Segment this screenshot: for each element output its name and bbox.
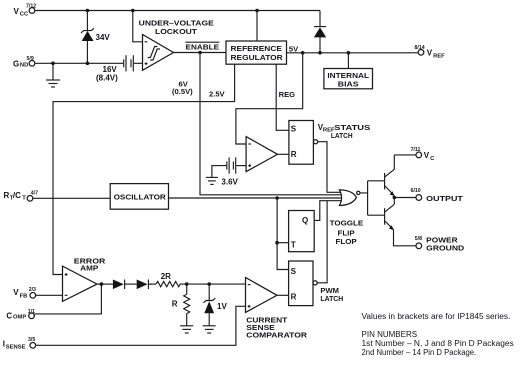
latch PWM LATCH <box>289 261 344 306</box>
svg-text:GROUND: GROUND <box>426 243 465 252</box>
svg-text:V: V <box>13 288 19 297</box>
wire to T input <box>277 242 289 244</box>
svg-text:3/5: 3/5 <box>28 337 35 343</box>
wire error amp output node <box>97 283 113 285</box>
svg-text:ND: ND <box>20 62 28 68</box>
wire 5V to comparator input <box>236 53 303 144</box>
block OSCILLATOR <box>110 184 168 210</box>
pin POWER GROUND 5/8 <box>415 236 465 253</box>
svg-text:7/12: 7/12 <box>26 3 36 9</box>
svg-text:FLOP: FLOP <box>336 237 357 246</box>
svg-text:ENABLE: ENABLE <box>186 42 220 51</box>
svg-text:(0.5V): (0.5V) <box>172 87 193 96</box>
svg-text:REG: REG <box>279 90 296 99</box>
wire comparator output to R <box>278 153 289 155</box>
svg-text:8/14: 8/14 <box>415 45 425 51</box>
junction clock-T <box>275 241 279 245</box>
svg-text:REGULATOR: REGULATOR <box>231 53 284 62</box>
net 5V rail <box>287 52 418 54</box>
junction 5V-branch <box>301 51 305 55</box>
diode VREF-to-VCC <box>314 11 326 53</box>
svg-text:I: I <box>3 339 5 348</box>
wire UVLO output / net ENABLE <box>174 52 227 54</box>
svg-text:PIN NUMBERS: PIN NUMBERS <box>362 330 418 339</box>
svg-text:R: R <box>4 191 10 200</box>
pin VFB 2/3 <box>13 287 36 299</box>
junction node R <box>185 282 189 286</box>
svg-text:LATCH: LATCH <box>320 294 343 303</box>
svg-text:LOCKOUT: LOCKOUT <box>155 27 197 36</box>
diode D2 <box>137 280 152 290</box>
svg-text:/C: /C <box>13 191 21 200</box>
wire clock to T and S <box>277 198 289 270</box>
wire comparator output to R of PWM latch <box>277 294 289 296</box>
junction VCC-UVLO <box>131 9 135 13</box>
svg-text:OMP: OMP <box>13 315 26 321</box>
pin VCC 7/12 <box>14 3 37 17</box>
svg-text:6/10: 6/10 <box>411 188 421 194</box>
svg-text:4/7: 4/7 <box>31 190 38 196</box>
svg-text:5/9: 5/9 <box>27 56 34 62</box>
svg-text:1st Number – N, J and 8 Pin D: 1st Number – N, J and 8 Pin D Packages <box>362 339 514 348</box>
svg-text:V: V <box>14 7 20 16</box>
svg-text:1/1: 1/1 <box>28 309 35 315</box>
svg-text:(8.4V): (8.4V) <box>96 74 118 83</box>
svg-text:AMP: AMP <box>80 264 98 273</box>
transistor Q2 (bottom NPN) <box>385 198 416 246</box>
ground <box>46 63 60 87</box>
op-amp ERROR AMP <box>63 257 106 302</box>
wire VCC rail <box>35 10 320 12</box>
flip-flop TOGGLE FLIP FLOP <box>289 211 364 252</box>
pin GND 5/9 <box>13 56 35 68</box>
gate NOR <box>339 190 360 206</box>
svg-text:Values in brackets are for IP1: Values in brackets are for IP1845 series… <box>362 312 511 321</box>
svg-text:REF: REF <box>433 53 445 59</box>
svg-text:LATCH: LATCH <box>331 131 353 140</box>
pin ISENSE 3/5 <box>3 337 36 350</box>
ground for 3.6V battery <box>206 177 218 184</box>
zener diode 34V <box>81 11 110 64</box>
svg-text:FB: FB <box>20 293 28 299</box>
op-amp UVLO comparator <box>143 35 174 71</box>
op-amp CURRENT SENSE COMPARATOR <box>246 277 308 339</box>
svg-text:R: R <box>291 292 297 301</box>
svg-text:2nd Number – 14 Pin D Package.: 2nd Number – 14 Pin D Package. <box>362 348 477 357</box>
pin COMP 1/1 <box>6 309 35 321</box>
wire clock line to NOR <box>169 197 344 199</box>
svg-text:Q: Q <box>302 216 308 225</box>
svg-text:2/3: 2/3 <box>29 287 36 293</box>
junction GND-earth <box>51 62 55 66</box>
net 2.5V refreg down-wire <box>53 64 235 274</box>
svg-text:COMPARATOR: COMPARATOR <box>246 331 307 340</box>
svg-text:REFERENCE: REFERENCE <box>231 44 282 53</box>
pin VREF 8/14 <box>415 45 446 59</box>
junction VCC-refreg <box>255 9 259 13</box>
junction GND-zener <box>86 62 90 66</box>
svg-text:V: V <box>424 151 430 160</box>
svg-text:G: G <box>13 59 19 68</box>
junction output node <box>393 196 397 200</box>
svg-text:CC: CC <box>20 11 29 17</box>
resistor R <box>172 284 190 326</box>
wire toggle Q to NOR <box>314 201 342 221</box>
pin OUTPUT 6/10 <box>394 188 463 203</box>
svg-text:OSCILLATOR: OSCILLATOR <box>114 193 167 202</box>
wire UVLO + input from VCC rail <box>133 11 143 42</box>
battery 3.6V <box>212 157 246 186</box>
junction 5V-diode <box>318 51 322 55</box>
svg-text:OUTPUT: OUTPUT <box>426 194 463 203</box>
junction 5V-bias <box>347 51 351 55</box>
svg-text:16V: 16V <box>103 65 118 74</box>
wire PWM output to NOR <box>317 201 327 283</box>
junction clock branch <box>275 196 279 200</box>
ground for R <box>180 326 193 333</box>
svg-text:2R: 2R <box>161 272 171 281</box>
svg-text:V: V <box>427 49 433 58</box>
wire GND rail <box>35 62 123 64</box>
ground for zener 1V <box>203 326 216 333</box>
transistor Q1 (top NPN) <box>385 155 395 196</box>
wire error amp output to COMP pin <box>35 284 102 314</box>
wire ISENSE to comparator + input <box>36 306 246 345</box>
svg-text:3.6V: 3.6V <box>221 177 238 186</box>
battery 16V (8.4V) <box>96 55 143 82</box>
wire latch output to NOR <box>318 142 342 193</box>
pin RT/CT 4/7 <box>4 190 39 201</box>
pin VC 7/11 <box>394 147 435 162</box>
svg-text:5/8: 5/8 <box>415 236 422 242</box>
wire RT/CT to oscillator <box>33 197 110 199</box>
svg-text:S: S <box>291 267 297 276</box>
junction VCC-zener <box>86 9 90 13</box>
svg-text:TOGGLE: TOGGLE <box>330 219 364 228</box>
wire VFB to error amp - input <box>36 294 63 296</box>
wire VCC rail to refreg top <box>256 11 258 42</box>
resistor 2R <box>148 272 245 287</box>
svg-text:T: T <box>291 240 296 249</box>
svg-text:34V: 34V <box>96 33 111 42</box>
svg-text:BIAS: BIAS <box>338 79 359 88</box>
svg-text:S: S <box>291 124 297 133</box>
wire NOR output to bases <box>361 181 384 215</box>
junction node zener <box>207 282 211 286</box>
svg-text:7/11: 7/11 <box>411 147 421 153</box>
block REFERENCE REGULATOR <box>226 41 287 64</box>
svg-text:R: R <box>291 150 297 159</box>
svg-text:C: C <box>6 312 12 321</box>
svg-text:5V: 5V <box>289 45 299 54</box>
svg-text:T: T <box>22 196 26 202</box>
note pin numbers <box>362 330 514 357</box>
svg-text:1V: 1V <box>217 302 227 311</box>
diode D1 <box>113 280 137 290</box>
wire ENABLE to NOR gate <box>200 53 343 195</box>
op-amp VREF-good comparator <box>246 137 277 172</box>
svg-text:2.5V: 2.5V <box>209 89 226 98</box>
block INTERNAL BIAS <box>324 53 373 89</box>
net REG to S of latch <box>276 64 295 130</box>
svg-text:SENSE: SENSE <box>6 344 26 350</box>
svg-text:R: R <box>172 300 178 309</box>
zener diode 1V <box>204 284 228 326</box>
latch VREF STATUS LATCH <box>289 121 370 165</box>
